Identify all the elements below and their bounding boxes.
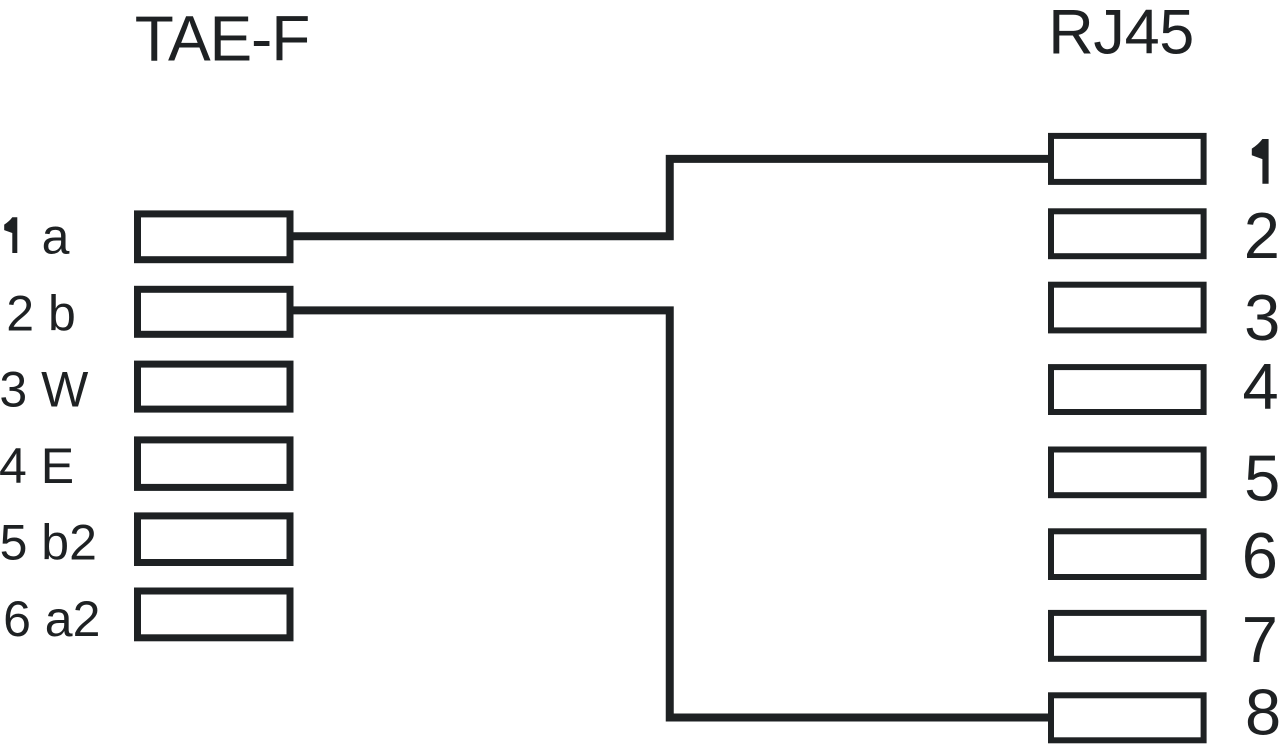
svg-text:3: 3 <box>1244 281 1280 354</box>
svg-text:5 b2: 5 b2 <box>0 515 97 571</box>
svg-text:5: 5 <box>1244 442 1280 515</box>
svg-text:RJ45: RJ45 <box>1048 0 1194 68</box>
svg-text:a: a <box>42 209 70 265</box>
svg-text:TAE-F: TAE-F <box>135 3 310 75</box>
svg-text:8: 8 <box>1245 676 1280 749</box>
svg-text:4: 4 <box>1243 350 1279 423</box>
svg-text:7: 7 <box>1242 603 1278 676</box>
svg-text:2 b: 2 b <box>6 286 76 342</box>
svg-text:6 a2: 6 a2 <box>3 591 100 647</box>
svg-text:2: 2 <box>1244 199 1280 272</box>
svg-text:6: 6 <box>1242 519 1278 592</box>
svg-text:3 W: 3 W <box>0 362 89 418</box>
svg-text:4 E: 4 E <box>0 438 74 494</box>
